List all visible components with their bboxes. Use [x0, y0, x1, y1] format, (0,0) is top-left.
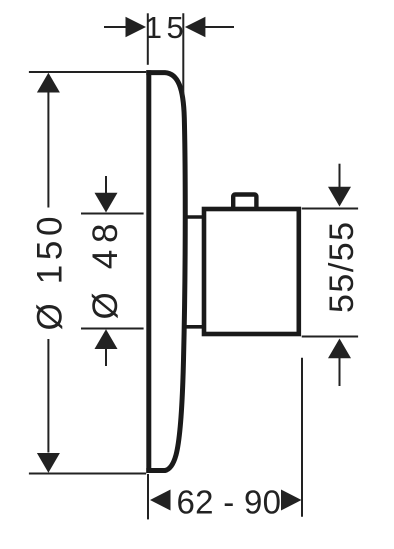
- escutcheon plate left edge: [146, 70, 151, 473]
- dim 15: left arrow: [126, 17, 147, 37]
- dim 55/55: top extension line: [302, 208, 358, 210]
- dim 48: upper dimension line: [105, 176, 107, 193]
- dim 15: left tail line: [104, 26, 127, 28]
- knob top button: [233, 195, 256, 209]
- escutcheon plate outline (top, right dome curve, bottom): [146, 73, 185, 471]
- dim 15: left extension line: [147, 13, 149, 65]
- dim 55/55: upper dimension line: [339, 164, 341, 187]
- dim 150: bottom extension line: [29, 473, 146, 475]
- dim 48: down arrow: [95, 193, 118, 213]
- dim 62-90: left extension line: [147, 474, 149, 519]
- svg-text:55/55: 55/55: [323, 220, 361, 313]
- dim 48: top extension line: [81, 213, 144, 215]
- dim 150: upper dimension line: [47, 92, 49, 208]
- dim 48: lower dimension line: [105, 348, 107, 366]
- svg-text:Ø 150: Ø 150: [31, 212, 70, 331]
- dim 55/55: down arrow: [328, 187, 351, 207]
- knob body: [204, 209, 299, 334]
- dim 55/55: up arrow: [328, 339, 351, 359]
- dim 48: up arrow: [95, 329, 118, 349]
- dim 150: down arrow: [37, 453, 60, 473]
- svg-text:Ø 48: Ø 48: [86, 217, 125, 320]
- dim 150: top extension line: [29, 71, 146, 73]
- dim 48: bottom extension line: [81, 328, 144, 330]
- dim 150: up arrow: [37, 73, 60, 93]
- dim 55/55: lower dimension line: [339, 358, 341, 386]
- dim 15: right tail line: [205, 26, 234, 28]
- dim 62-90: left arrow: [150, 490, 171, 511]
- dim 55/55: bottom extension line: [302, 336, 358, 338]
- dim 62-90: right extension line: [301, 358, 303, 517]
- dim 150: lower dimension line: [47, 339, 49, 453]
- stem bottom line: [184, 325, 205, 329]
- stem top line: [184, 215, 205, 219]
- svg-text:62 - 90: 62 - 90: [177, 484, 282, 521]
- dim 62-90: right arrow: [281, 490, 302, 511]
- dim 15: right extension line: [182, 13, 184, 110]
- svg-text:15: 15: [145, 10, 188, 45]
- dim 15: right arrow: [185, 17, 206, 37]
